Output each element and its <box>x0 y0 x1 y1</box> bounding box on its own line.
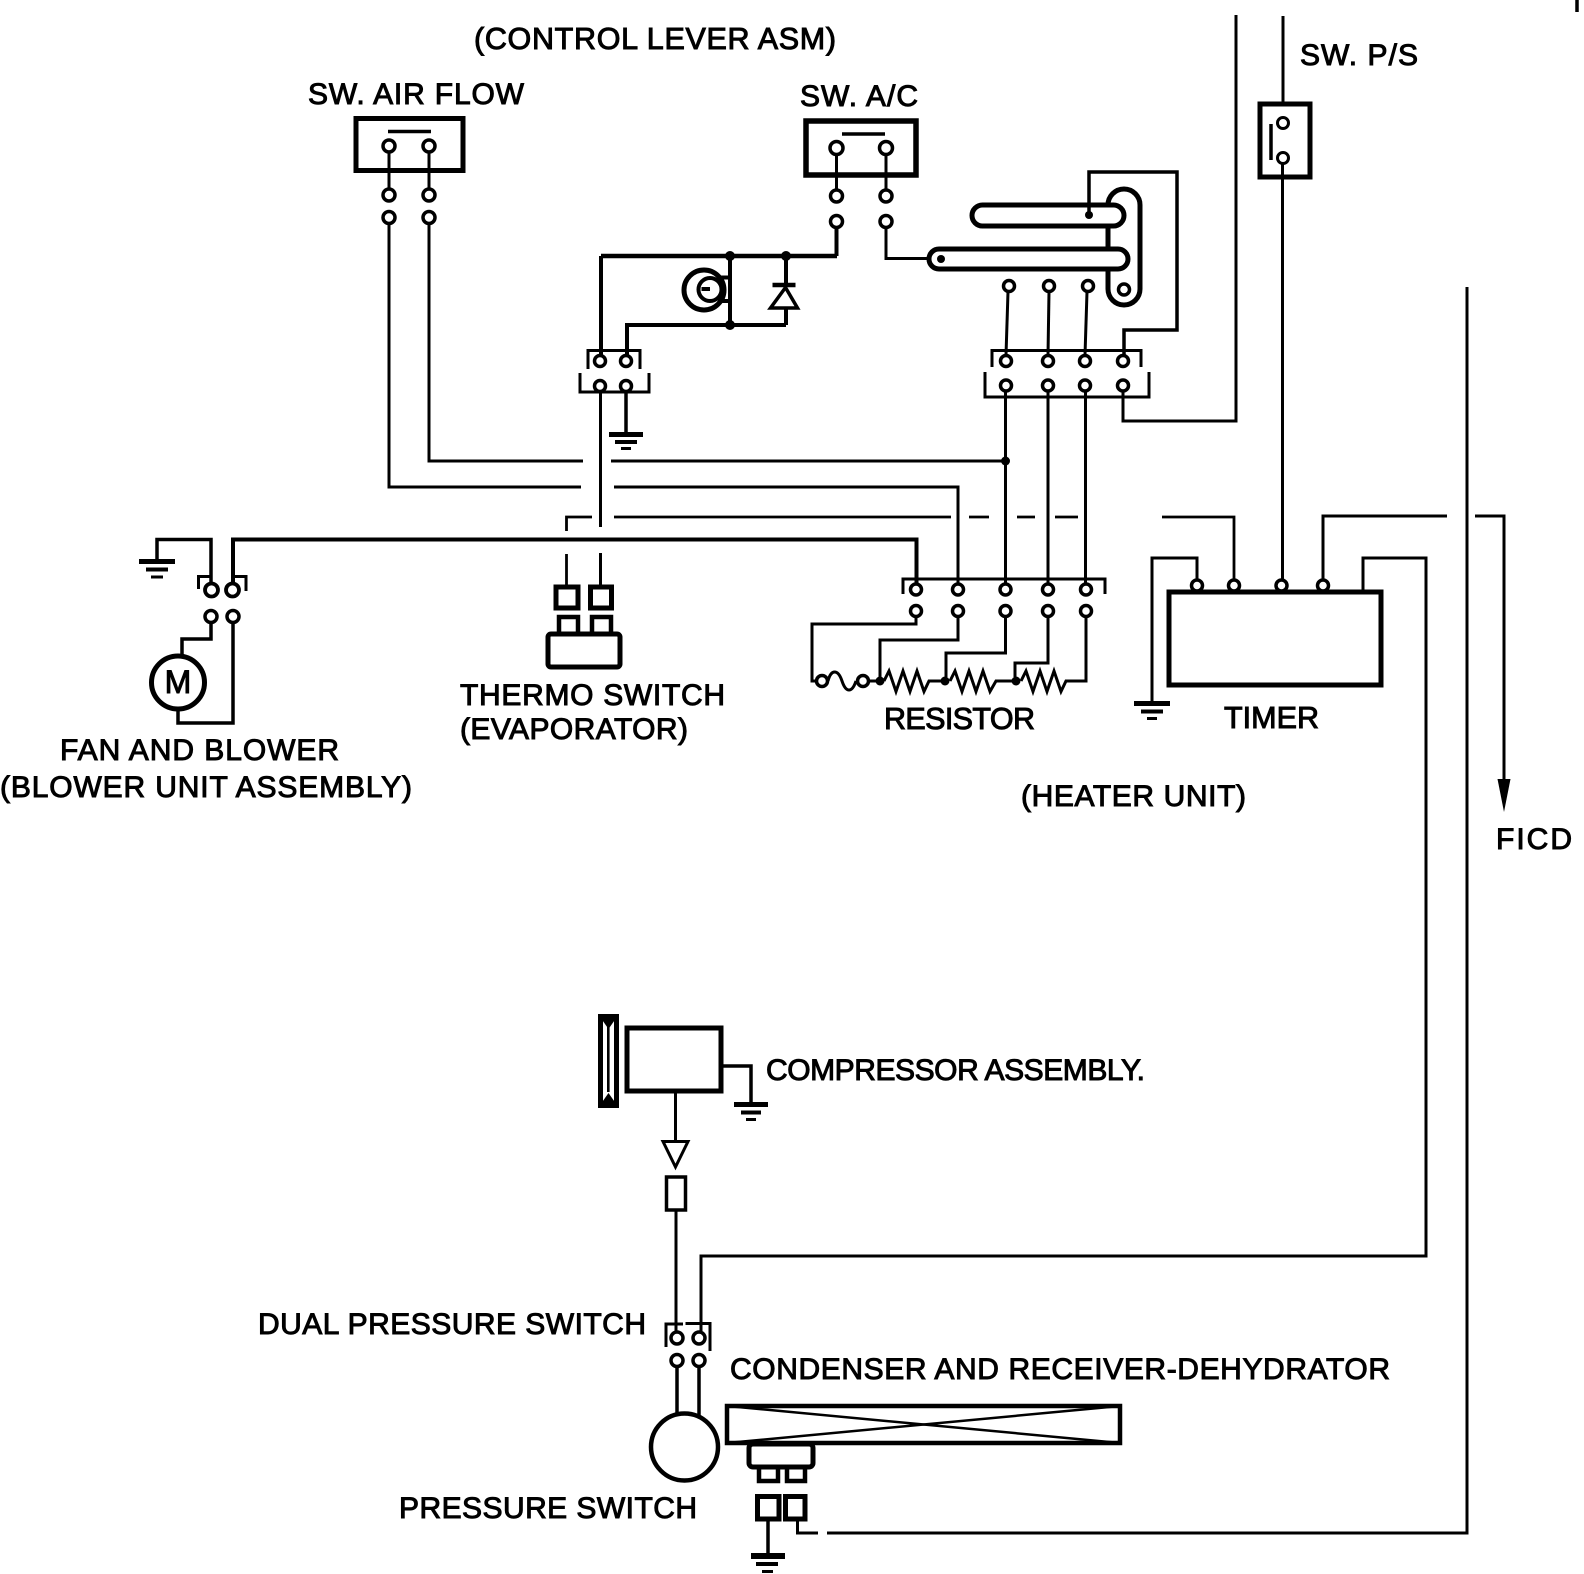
wire SW. AIR FLOW pin1 to resistor connector pin2 (left part) <box>389 224 581 488</box>
resistor chain terminal circle 2 <box>858 676 869 687</box>
connector 4x2 pin3 upper <box>1080 356 1091 367</box>
resistor R2 zigzag <box>884 671 941 692</box>
wire condenser return up right side <box>798 1519 819 1533</box>
ground at compressor <box>734 1105 768 1120</box>
junction node B <box>876 677 885 686</box>
wire SW. AIR FLOW pin2 toward node A (right part) <box>611 460 1006 463</box>
resistor connector pin2 upper <box>953 584 964 595</box>
junction node D <box>1012 677 1021 686</box>
svg-text:(EVAPORATOR): (EVAPORATOR) <box>460 713 688 746</box>
wire resistor pin2 to node B <box>880 617 958 677</box>
wire thermo switch left pin riser (upper piece) <box>567 517 593 531</box>
DPS pin1 lower <box>671 1355 683 1367</box>
wire SW. AIR FLOW pin2 stub <box>428 152 431 189</box>
wire top edge to SW P/S <box>1282 16 1285 104</box>
SW. AIR FLOW pin 1 <box>383 140 395 152</box>
wire thermo to timer pin2 segment 4 <box>1055 516 1078 519</box>
svg-text:COMPRESSOR ASSEMBLY.: COMPRESSOR ASSEMBLY. <box>766 1054 1145 1087</box>
compressor clutch box <box>627 1028 721 1091</box>
junction node A <box>1001 457 1010 466</box>
fuse/connector block <box>667 1177 686 1210</box>
motor M (blower) <box>152 656 205 709</box>
wire fuse to dual pressure switch pin1 <box>675 1210 678 1331</box>
wire compressor to ground <box>721 1066 751 1102</box>
svg-text:CONDENSER AND RECEIVER-DEHYDRA: CONDENSER AND RECEIVER-DEHYDRATOR <box>730 1353 1390 1386</box>
svg-text:SW. AIR FLOW: SW. AIR FLOW <box>308 78 525 111</box>
wire compressor bottom lead <box>674 1091 677 1140</box>
junction diode top node <box>781 251 791 261</box>
connector SW. AIR FLOW pin2 upper half <box>423 189 435 201</box>
connector fan pin1 lower <box>205 611 217 623</box>
connector control-lever 4x2 lower bracket <box>985 372 1149 397</box>
wire timer pin4 to FICD (right piece) <box>1475 516 1504 781</box>
fan lever circle 2 <box>1044 281 1055 292</box>
fan lever circle 1 <box>1004 281 1015 292</box>
thermo switch right terminal square <box>591 587 612 608</box>
resistor R4 zigzag <box>1021 617 1086 692</box>
svg-text:FAN AND BLOWER: FAN AND BLOWER <box>60 734 339 767</box>
ground below 2x2 connector <box>609 435 643 449</box>
timer pin 2 <box>1229 580 1240 591</box>
wire 4x2 pin4 up to top edge <box>1123 15 1236 421</box>
condenser connector tab 1 <box>759 1467 778 1481</box>
connector SW. AIR FLOW pin2 lower half <box>423 212 435 224</box>
ground at timer <box>1134 704 1170 719</box>
wire thermo to timer pin2 segment 3 <box>1017 516 1035 519</box>
wire chain circle2 to node B <box>869 680 876 683</box>
junction node C <box>941 677 950 686</box>
SW. A/C pin 2 <box>880 142 893 155</box>
timer pin 1 <box>1192 580 1203 591</box>
connector control-lever 2x2 lower bracket <box>580 373 649 392</box>
wire SW. P/S to timer pin3 <box>1281 164 1284 581</box>
svg-text:DUAL PRESSURE SWITCH: DUAL PRESSURE SWITCH <box>258 1308 646 1341</box>
middle bar terminal dot <box>937 255 945 263</box>
connector SW. A/C pin2 lower half <box>880 216 892 228</box>
connector 2x2 pin A upper <box>595 356 606 367</box>
resistor connector pin1 lower <box>911 606 922 617</box>
lamp E (illumination bulb) outer <box>684 270 724 310</box>
junction bulb top node <box>725 251 735 261</box>
fan lever capsule circle <box>1119 284 1130 295</box>
connector fan pin1 upper <box>205 584 218 597</box>
timer box <box>1169 592 1381 685</box>
DPS pin1 upper <box>671 1332 683 1344</box>
junction bulb bottom node <box>725 320 735 330</box>
resistor connector pin5 upper <box>1081 584 1092 595</box>
switch SW. AIR FLOW body <box>356 119 463 171</box>
connector SW. AIR FLOW pin1 upper half <box>383 189 395 201</box>
lamp E bottom stub <box>718 299 731 303</box>
switch SW. A/C body <box>806 121 916 175</box>
fan lever assembly loop wire <box>1089 172 1177 355</box>
wire timer pin1 to ground <box>1152 558 1197 701</box>
wire into top bar <box>1087 205 1091 212</box>
thermo switch left tab <box>559 617 578 634</box>
resistor connector pin3 upper <box>1000 584 1011 595</box>
wire timer aux terminal to dual pressure switch <box>701 558 1426 1331</box>
fan lever circle 3 <box>1083 281 1094 292</box>
SW. A/C contact bar <box>842 132 885 136</box>
wire thermo to timer pin2 segment 2 <box>969 516 989 519</box>
SW. A/C pin 1 <box>830 142 843 155</box>
resistor connector pin3 lower <box>1000 606 1011 617</box>
diode D1 cathode bar <box>773 283 796 288</box>
resistor R1 squiggle <box>828 672 856 690</box>
FICD arrowhead <box>1498 779 1511 812</box>
wire bus down to connector pin <box>599 256 603 355</box>
wire resistor pin3 to node C <box>946 617 1006 677</box>
switch SW. P/S body <box>1260 104 1310 177</box>
connector 4x2 pin1 lower <box>1001 380 1012 391</box>
resistor connector pin1 upper <box>911 584 922 595</box>
wire SW. A/C pin1 down to bus node <box>835 228 839 257</box>
svg-text:(CONTROL LEVER ASM): (CONTROL LEVER ASM) <box>474 22 836 56</box>
connector 4x2 pin4 lower <box>1118 380 1129 391</box>
condenser diagonal 2 <box>727 1406 1120 1443</box>
wire fan pin1 to motor top <box>182 623 211 659</box>
pressure switch circle <box>651 1414 718 1481</box>
condenser terminal square 2 <box>786 1497 806 1520</box>
connector 2x2 pin B upper <box>621 356 632 367</box>
resistor chain terminal circle 1 <box>817 676 828 687</box>
svg-text:PRESSURE SWITCH: PRESSURE SWITCH <box>399 1492 697 1525</box>
connector control-lever 4x2 upper bracket <box>992 351 1141 368</box>
compressor pulley bottom bowtie <box>598 1093 619 1108</box>
connector 4x2 pin4 upper <box>1118 356 1129 367</box>
connector fan left hook <box>199 577 210 590</box>
resistor R3 zigzag <box>950 671 1012 692</box>
wire ground to fan connector pin1 <box>157 540 211 584</box>
wire SW. A/C pin1 stub <box>835 154 838 190</box>
thermo switch left terminal square <box>556 587 578 608</box>
wire SW. AIR FLOW pin1 stub <box>388 152 391 189</box>
edge tick top right <box>1575 0 1579 12</box>
wire 4x2 pin3 to resistor pin5 <box>1084 392 1087 585</box>
wire condenser terminal to ground <box>766 1519 770 1553</box>
wire lever circle3 to connector pin3 <box>1085 292 1087 355</box>
wire DPS pin1 to pressure switch <box>675 1367 679 1416</box>
svg-text:SW. P/S: SW. P/S <box>1300 39 1418 72</box>
resistor connector pin4 upper <box>1043 584 1054 595</box>
connector DPS left hook <box>666 1324 683 1347</box>
wire lower return (bulb/diode to connector) <box>627 325 786 355</box>
svg-text:TIMER: TIMER <box>1224 701 1319 735</box>
wire 4x2 pin2 to resistor pin4 <box>1047 392 1050 585</box>
compressor pulley belt line <box>607 1026 610 1092</box>
SW. P/S contact bar <box>1269 124 1273 160</box>
top bar terminal dot <box>1085 211 1093 219</box>
resistor connector pin5 lower <box>1081 606 1092 617</box>
connector 4x2 pin3 lower <box>1080 380 1091 391</box>
lamp E inner circle <box>699 278 722 301</box>
compressor pulley right bar <box>614 1014 619 1108</box>
diode D1 anode lead <box>784 308 788 325</box>
fan lever top bar <box>972 205 1124 226</box>
DPS pin2 lower <box>693 1355 705 1367</box>
condenser box <box>727 1406 1120 1443</box>
wire lever circle2 to connector pin2 <box>1048 292 1049 355</box>
connector 4x2 pin2 lower <box>1043 380 1054 391</box>
connector 2x2 pin B lower <box>621 381 632 392</box>
resistor connector pin2 lower <box>953 606 964 617</box>
connector SW. AIR FLOW pin1 lower half <box>383 212 395 224</box>
DPS pin2 upper <box>693 1332 705 1344</box>
svg-text:FICD: FICD <box>1496 823 1572 856</box>
wire thermo switch left pin riser (lower piece) <box>565 554 568 587</box>
compressor pulley left bar <box>598 1014 603 1108</box>
svg-text:(HEATER UNIT): (HEATER UNIT) <box>1021 780 1246 813</box>
wire illumination bus (top horizontal) <box>601 254 837 259</box>
wire thermo to timer pin2 segment 1 <box>614 516 951 519</box>
svg-text:(BLOWER UNIT ASSEMBLY): (BLOWER UNIT ASSEMBLY) <box>0 771 412 804</box>
connector arrow symbol <box>663 1142 688 1168</box>
svg-text:RESISTOR: RESISTOR <box>884 702 1035 736</box>
wire resistor pin1 to chain start <box>812 617 916 681</box>
condenser diagonal 1 <box>727 1406 1120 1443</box>
connector DPS right hook <box>686 1324 711 1352</box>
fan lever vertical capsule <box>1108 189 1140 305</box>
compressor pulley top bowtie <box>598 1014 619 1029</box>
svg-text:M: M <box>165 664 192 700</box>
connector fan pin2 upper <box>226 584 239 597</box>
wire 2x2 pin B to ground <box>624 392 628 434</box>
wire SW. A/C pin2 down to fan lever bar <box>886 228 937 259</box>
timer pin 4 <box>1318 580 1329 591</box>
wire 4x2 pin1 to resistor pin3 <box>1004 392 1007 585</box>
lamp E filament tick <box>702 287 711 291</box>
connector 4x2 pin2 upper <box>1043 356 1054 367</box>
connector fan right hook <box>234 577 246 592</box>
timer pin 3 <box>1276 580 1287 591</box>
connector 2x2 pin A lower <box>595 381 606 392</box>
ground at blower feed <box>139 562 175 578</box>
wire DPS pin2 to pressure switch <box>697 1367 701 1419</box>
connector 4x2 pin1 upper <box>1001 356 1012 367</box>
wire SW. A/C pin2 stub <box>885 154 888 190</box>
connector control-lever 2x2 upper bracket <box>588 351 640 370</box>
connector SW. A/C pin1 upper half <box>831 190 843 202</box>
svg-text:SW. A/C: SW. A/C <box>800 80 918 113</box>
lamp E top stub <box>718 276 731 280</box>
SW. P/S pin top <box>1278 118 1289 129</box>
connector fan pin2 lower <box>227 611 239 623</box>
wire SW. AIR FLOW pin1 to resistor connector pin2 (right part) <box>614 487 958 584</box>
thermo switch body <box>548 634 620 667</box>
wire 2x2 pin A down (upper piece) <box>599 392 602 528</box>
wire resistor pin4 to node D <box>1015 617 1048 677</box>
wire main bus to fan connector pin2 and resistor pin1 <box>233 540 917 585</box>
wire 2x2 pin A down (lower piece to thermo switch) <box>599 553 602 587</box>
wire SW. AIR FLOW pin2 toward node A (left part) <box>429 224 583 462</box>
SW. AIR FLOW pin 2 <box>423 140 435 152</box>
wire bulb branch vertical <box>728 256 732 325</box>
svg-text:THERMO SWITCH: THERMO SWITCH <box>460 679 725 712</box>
condenser connector tab 2 <box>787 1467 805 1481</box>
resistor connector bracket <box>903 579 1105 594</box>
thermo switch right tab <box>592 617 611 634</box>
SW. AIR FLOW contact bar <box>388 130 431 134</box>
wire motor bottom to fan pin2 <box>178 623 233 724</box>
condenser connector body <box>749 1444 813 1467</box>
wire timer pin4 to FICD (left piece) <box>1323 516 1447 580</box>
SW. P/S pin bottom <box>1278 153 1289 164</box>
resistor connector pin4 lower <box>1043 606 1054 617</box>
fan lever middle bar <box>929 249 1128 269</box>
wire thermo to timer pin2 segment 5 <box>1162 517 1234 580</box>
connector SW. A/C pin2 upper half <box>880 190 892 202</box>
ground at condenser <box>751 1556 785 1572</box>
diode D1 cathode lead <box>784 256 788 284</box>
condenser terminal square 1 <box>758 1497 780 1520</box>
wire lever circle1 to connector pin1 <box>1006 292 1008 355</box>
connector SW. A/C pin1 lower half <box>831 216 843 228</box>
diode D1 triangle <box>771 288 798 309</box>
